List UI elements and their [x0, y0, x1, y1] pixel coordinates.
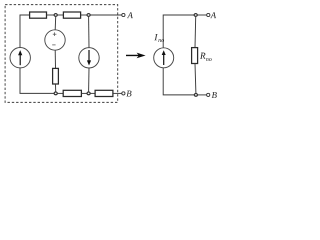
terminal B (Norton) — [207, 93, 210, 96]
IS2 arrow (down) — [87, 50, 91, 66]
wire node f to terminal B — [198, 94, 207, 96]
resistor R5 — [95, 90, 113, 96]
wire node e to terminal A — [197, 14, 206, 16]
wire node b down to IS2 — [88, 17, 90, 48]
VS1 minus sign — [52, 44, 55, 46]
resistor Rno (vertical) — [192, 48, 198, 64]
wire node a to R2 — [57, 14, 63, 16]
VS1 plus sign — [53, 32, 57, 36]
wire IS2 to node d — [88, 68, 90, 92]
wire IS1 to bottom rail — [20, 68, 54, 94]
label Ino — [154, 34, 158, 40]
resistor R1 — [30, 12, 47, 18]
terminal B (left circuit) — [122, 92, 125, 95]
wire Ino to Norton bottom rail — [163, 68, 194, 95]
node b (top right junction) — [87, 14, 90, 17]
wire R3 to node c — [55, 84, 57, 92]
node d (bottom right junction) — [87, 92, 90, 95]
current source Ino — [154, 48, 174, 68]
wire node a down to VS1 — [54, 17, 57, 30]
terminal A (left circuit) — [122, 13, 125, 16]
resistor R3 (vertical) — [53, 68, 59, 84]
Ino arrow (up) — [162, 50, 166, 65]
wire R4 to node d — [81, 92, 87, 94]
terminal A (Norton) — [207, 13, 210, 16]
wire node b to terminal A — [90, 14, 122, 16]
voltage source VS1 — [45, 30, 65, 50]
wire node e down to Rno — [194, 17, 197, 48]
wire R2 to node b — [81, 14, 87, 16]
wire Norton top rail — [163, 15, 194, 48]
resistor R4 — [63, 90, 81, 96]
label A (Norton) — [210, 12, 216, 18]
node e (Norton top junction) — [194, 14, 197, 17]
wire VS1 to R3 — [54, 50, 56, 68]
label B (left circuit) — [126, 91, 131, 97]
wire node d to R5 — [90, 92, 95, 94]
resistor R2 — [63, 12, 80, 18]
current source IS1 — [10, 48, 30, 68]
wire Rno to node f — [194, 64, 197, 94]
IS1 arrow (up) — [18, 50, 22, 65]
node f (Norton bottom junction) — [194, 94, 197, 97]
node a (top middle junction) — [54, 14, 57, 17]
current source IS2 — [79, 48, 99, 68]
wire node c to R4 — [57, 92, 63, 94]
wire R5 to terminal B — [113, 92, 122, 94]
label Rno — [200, 53, 206, 59]
wire top rail left segment — [20, 15, 30, 48]
label A (left circuit) — [127, 12, 133, 18]
transform arrow (left to right) — [126, 53, 146, 59]
wire R1 to node a — [47, 14, 55, 16]
label B (Norton) — [212, 92, 217, 98]
node c (bottom middle junction) — [54, 92, 57, 95]
network boundary (dashed box) — [5, 5, 118, 103]
